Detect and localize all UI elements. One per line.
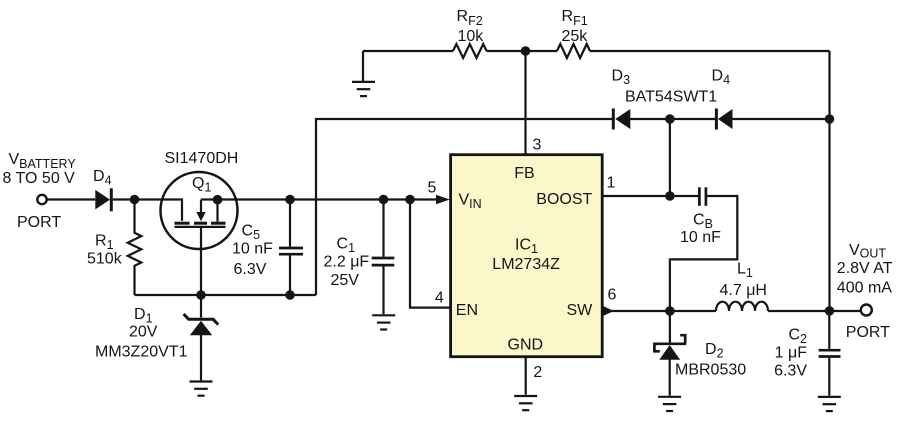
svg-text:2.8V AT: 2.8V AT: [837, 260, 893, 277]
ground IC: [514, 396, 537, 410]
wire port to D4: [47, 198, 95, 200]
svg-text:1 μF: 1 μF: [775, 344, 808, 361]
svg-text:20V: 20V: [129, 324, 158, 341]
node FB top: [521, 46, 531, 56]
svg-text:D4: D4: [93, 168, 112, 188]
svg-text:C5: C5: [242, 223, 261, 243]
wire gate node rail: [135, 294, 317, 296]
ground D2: [658, 397, 681, 411]
svg-text:8 TO 50 V: 8 TO 50 V: [3, 170, 76, 187]
svg-text:D3: D3: [612, 68, 631, 88]
svg-text:4.7 μH: 4.7 μH: [720, 282, 767, 299]
inductor L1: [716, 302, 768, 311]
svg-text:LM2734Z: LM2734Z: [492, 256, 560, 273]
node C1 top: [379, 195, 389, 205]
wire main input rail: [201, 198, 437, 200]
svg-text:25k: 25k: [562, 28, 589, 45]
resistor RF2: [453, 44, 487, 58]
svg-text:400 mA: 400 mA: [837, 280, 892, 297]
svg-text:PORT: PORT: [17, 214, 61, 231]
ground C2: [818, 397, 841, 411]
svg-text:FB: FB: [514, 165, 534, 182]
ground top left: [352, 82, 375, 96]
port output terminal: [861, 305, 872, 316]
svg-text:2: 2: [533, 364, 542, 381]
svg-text:VBATTERY: VBATTERY: [9, 151, 77, 171]
svg-text:PORT: PORT: [846, 324, 890, 341]
ground D1: [190, 382, 213, 396]
svg-text:4: 4: [435, 290, 444, 307]
svg-text:L1: L1: [737, 261, 753, 281]
wire FB vertical: [524, 51, 526, 154]
wire D4 to right rail: [733, 118, 830, 120]
svg-text:6: 6: [608, 287, 617, 304]
capacitor C2: [819, 311, 841, 396]
svg-text:6.3V: 6.3V: [234, 261, 267, 278]
wire top ground drop: [362, 51, 364, 82]
svg-text:D2: D2: [705, 341, 724, 361]
node EN branch: [405, 195, 415, 205]
diode D1 zener: [184, 295, 219, 381]
ground C1: [372, 315, 395, 329]
diode D4 input: [95, 188, 111, 211]
svg-text:BOOST: BOOST: [536, 191, 592, 208]
wire L1 to output: [768, 310, 861, 312]
svg-text:Q1: Q1: [192, 175, 211, 195]
svg-text:MM3Z20VT1: MM3Z20VT1: [95, 344, 188, 361]
transistor Q1: [161, 172, 238, 249]
port input terminal: [37, 195, 46, 204]
svg-text:R1: R1: [95, 233, 114, 253]
diode D3: [613, 109, 630, 130]
node right rail D4: [825, 114, 835, 124]
svg-text:VOUT: VOUT: [849, 242, 886, 261]
svg-text:10 nF: 10 nF: [680, 229, 721, 246]
node C5 bottom: [285, 290, 295, 300]
wire EN branch: [410, 200, 450, 308]
svg-text:3: 3: [533, 137, 542, 154]
capacitor C1: [372, 200, 395, 315]
resistor R1: [128, 200, 142, 296]
svg-text:BAT54SWT1: BAT54SWT1: [625, 88, 717, 105]
diode D4 schottky: [716, 109, 732, 130]
svg-text:2.2 μF: 2.2 μF: [324, 253, 370, 270]
wire top feedback rail: [363, 50, 453, 52]
node boost charge: [665, 114, 675, 124]
svg-text:C2: C2: [788, 327, 807, 347]
svg-text:D4: D4: [712, 68, 731, 88]
svg-text:RF1: RF1: [562, 8, 588, 28]
diode D2 schottky: [653, 311, 686, 396]
capacitor C5: [279, 200, 303, 296]
svg-text:EN: EN: [456, 302, 478, 319]
svg-text:SW: SW: [567, 302, 594, 319]
svg-text:C1: C1: [337, 236, 356, 256]
capacitor CB: [670, 187, 737, 311]
wire boost riser: [669, 119, 671, 196]
node BOOST: [665, 191, 675, 201]
IC1 body: [451, 155, 603, 357]
svg-text:GND: GND: [508, 336, 544, 353]
pin 6 arrowhead: [602, 306, 613, 317]
svg-text:5: 5: [428, 180, 437, 197]
svg-text:MBR0530: MBR0530: [675, 362, 746, 379]
wire SW to L1: [602, 310, 716, 312]
wire D3 to D4: [630, 118, 716, 120]
wire BOOST pin: [602, 195, 698, 197]
node input junction: [130, 195, 140, 205]
svg-text:10k: 10k: [458, 28, 485, 45]
svg-text:10 nF: 10 nF: [232, 241, 273, 258]
node SW: [665, 306, 675, 316]
wire D4 to gate: [113, 200, 182, 221]
wire Q1 drain: [200, 228, 202, 295]
svg-text:510k: 510k: [87, 251, 123, 268]
node D1 top: [196, 290, 206, 300]
node output: [825, 306, 835, 316]
wire RF1 to right rail: [590, 50, 830, 52]
svg-text:25V: 25V: [331, 272, 360, 289]
pin 5 arrowhead: [436, 195, 450, 205]
resistor RF1: [557, 44, 590, 58]
node C5 top: [285, 195, 295, 205]
wire RF2 to RF1: [487, 50, 557, 52]
wire IC gnd pin: [525, 357, 527, 395]
wire feedback riser: [316, 119, 613, 295]
svg-text:6.3V: 6.3V: [774, 363, 807, 380]
wire right vertical rail: [828, 51, 830, 311]
svg-text:SI1470DH: SI1470DH: [165, 150, 239, 167]
node Q1 source: [213, 195, 223, 205]
svg-text:RF2: RF2: [457, 8, 483, 28]
svg-text:1: 1: [607, 175, 616, 192]
